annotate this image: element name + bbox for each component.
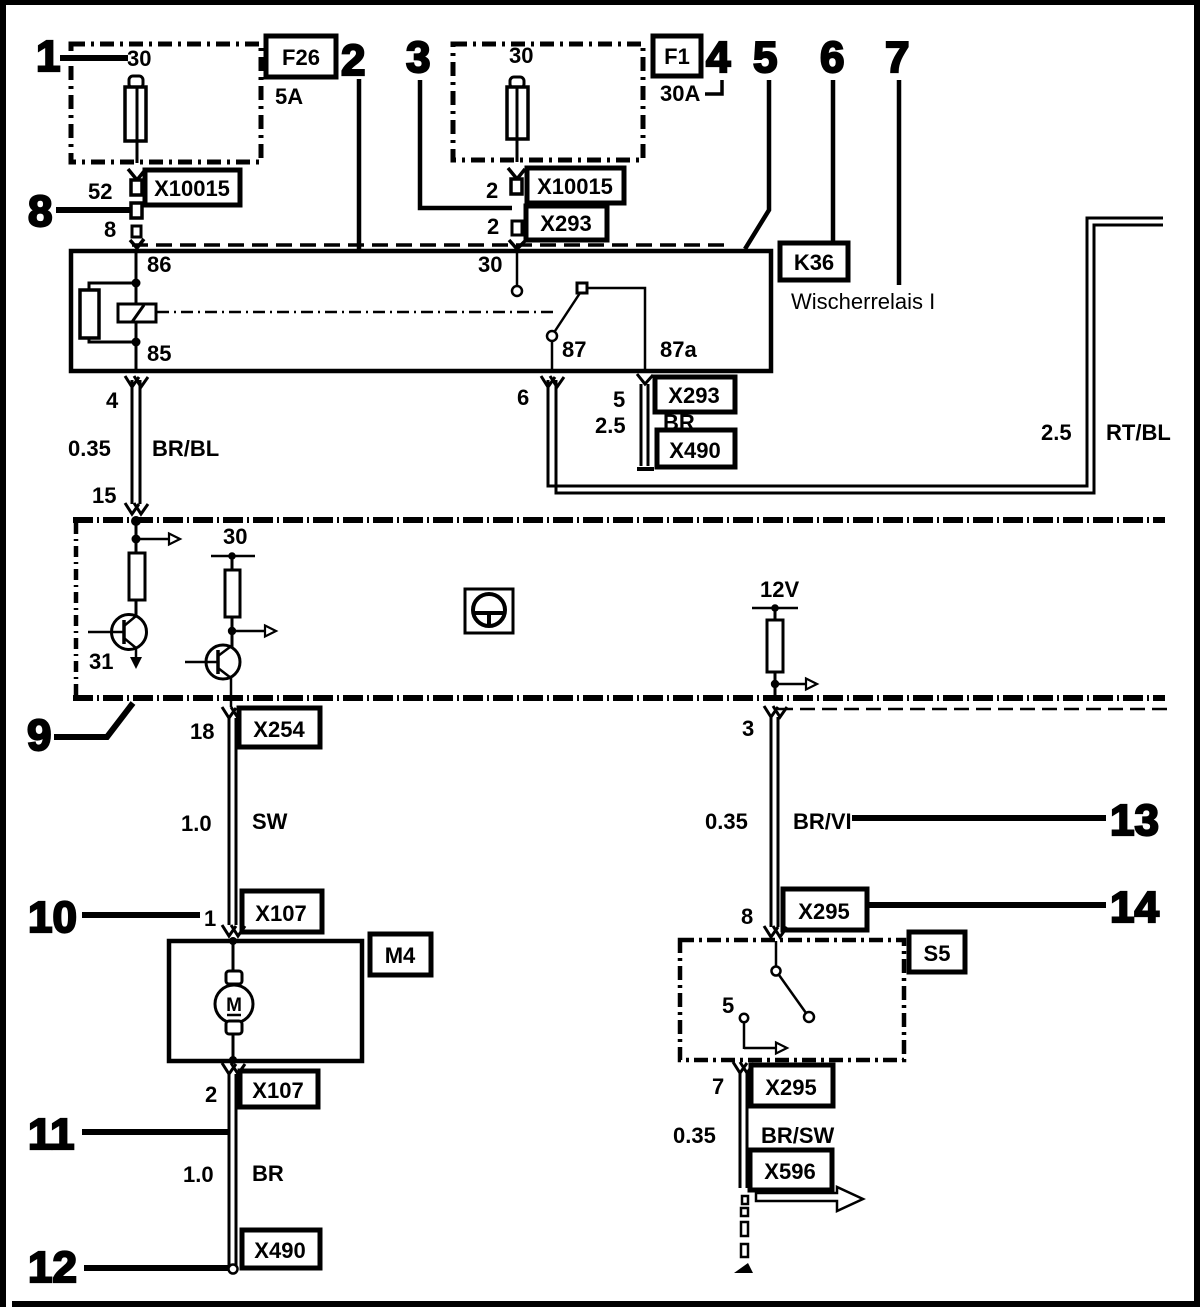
callout 10 leader line (82, 912, 200, 918)
svg-text:0.35: 0.35 (705, 809, 748, 834)
branch arrow right (open, middle) (232, 630, 265, 633)
earth eyelet circle at wire end (229, 1265, 238, 1274)
wire BR double line (229, 1074, 236, 1266)
svg-text:1: 1 (204, 906, 216, 931)
switch S5 dashed box (680, 940, 904, 1060)
callout 1 leader line (60, 55, 128, 61)
svg-text:X107: X107 (252, 1078, 303, 1103)
wire pivot to 87a terminal (587, 288, 645, 371)
svg-text:BR/BL: BR/BL (152, 436, 219, 461)
terminal 30 contact circle (512, 286, 522, 296)
callout 9 leader line (54, 703, 133, 737)
12V T-bar (752, 607, 798, 610)
svg-text:86: 86 (147, 252, 171, 277)
svg-text:5A: 5A (275, 84, 303, 109)
svg-text:X490: X490 (254, 1238, 305, 1263)
dashed boundary line above relay (132, 243, 728, 247)
motor earth wire (232, 1034, 235, 1062)
pin 3 arrows below module (764, 706, 787, 717)
svg-text:87a: 87a (660, 337, 697, 362)
label box X490 (lower) (242, 1230, 320, 1268)
callout 2 leader line (357, 79, 362, 250)
pin 15 entry arrows (125, 503, 148, 514)
svg-text:30: 30 (478, 252, 502, 277)
svg-text:3: 3 (742, 716, 754, 741)
callout 14 leader line (869, 902, 1106, 908)
relay K36 outline box (71, 251, 771, 371)
wire SW double line (229, 718, 236, 925)
internal fuse/resistor (left) (129, 553, 145, 600)
svg-text:BR/SW: BR/SW (761, 1123, 835, 1148)
svg-text:4: 4 (106, 388, 119, 413)
inner dashed boundary (right lower) (778, 708, 1168, 711)
label box S5 (909, 932, 965, 972)
svg-text:2: 2 (487, 214, 499, 239)
fuse F1 symbol (507, 77, 528, 162)
svg-text:9: 9 (27, 711, 51, 760)
dashed earth wire segment 2 (741, 1208, 748, 1216)
branch arrow right (open, 12V) (775, 683, 806, 686)
page border frame right (1194, 0, 1200, 1307)
callout 12 leader line (84, 1265, 230, 1271)
internal fuse/resistor (12V) (767, 620, 783, 672)
svg-text:1.0: 1.0 (183, 1162, 214, 1187)
resistor bottom connection wire (89, 338, 136, 342)
svg-text:8: 8 (741, 904, 753, 929)
svg-text:X107: X107 (255, 901, 306, 926)
wire 12V to fuse (774, 608, 777, 620)
svg-text:2.5: 2.5 (1041, 420, 1072, 445)
wire 87a double line down (641, 384, 648, 466)
svg-text:X295: X295 (765, 1075, 816, 1100)
control module dashed boundary left (74, 523, 79, 700)
dashed earth wire segment 1 (742, 1196, 748, 1204)
wire fuse to junction (231, 617, 234, 647)
relay coil feed wire (135, 251, 138, 305)
svg-text:6: 6 (517, 385, 529, 410)
node where pin 15 wire enters module (131, 516, 141, 526)
fuse carrier dashed box (left) (71, 44, 261, 162)
relay pin 4 arrows (125, 376, 148, 387)
svg-text:X295: X295 (798, 899, 849, 924)
emitter arrowhead (ground side) (130, 657, 142, 669)
pin 5 lead down (743, 1022, 746, 1049)
motor feed node (229, 937, 237, 945)
svg-text:RT/BL: RT/BL (1106, 420, 1171, 445)
motor brush cap (bottom) (226, 1021, 242, 1034)
connector X10015 pin arrow (right) (508, 168, 525, 179)
wire fuse to module edge (774, 672, 777, 700)
relay contact pivot square (577, 283, 587, 293)
label box F26 (266, 36, 336, 77)
motor brush cap (top) (226, 971, 242, 984)
fuse F26 symbol (125, 76, 146, 163)
svg-text:X10015: X10015 (154, 176, 230, 201)
svg-text:11: 11 (28, 1110, 75, 1159)
relay coil diagonal (132, 305, 144, 322)
label box F1 (653, 36, 701, 76)
label box M4 (370, 934, 431, 975)
motor feed wire (232, 941, 235, 973)
contact 87 lead (551, 341, 554, 371)
junction node with branch arrow (12V) (771, 680, 779, 688)
svg-text:5: 5 (722, 993, 734, 1018)
dashed earth wire segment 4 (741, 1244, 748, 1257)
page border frame bottom (12, 1301, 1200, 1307)
pin 2 arrows into X107 lower (222, 1063, 245, 1074)
svg-text:30: 30 (223, 524, 247, 549)
callout 7 leader line (897, 80, 902, 285)
wire T-bar to fuse (231, 556, 234, 570)
continuation arrow (outline, right) (756, 1187, 863, 1211)
svg-text:87: 87 (562, 337, 586, 362)
svg-text:S5: S5 (924, 941, 951, 966)
svg-text:30: 30 (127, 46, 151, 71)
pin 1 arrows into motor (222, 925, 245, 936)
label box X490 (upper) (657, 430, 735, 467)
svg-text:85: 85 (147, 341, 171, 366)
resistor top connection wire (89, 283, 136, 290)
connector X10015 pin arrow (left) (128, 169, 145, 180)
svg-text:7: 7 (885, 33, 909, 82)
connector pin square (right upper) (511, 179, 522, 194)
control module dashed boundary top (73, 517, 1165, 523)
svg-text:4: 4 (706, 33, 731, 82)
wire 86-circuit double line (pin 4 down) (132, 380, 140, 504)
junction node with branch arrow (132, 535, 141, 544)
svg-text:6: 6 (820, 33, 844, 82)
svg-text:K36: K36 (794, 250, 834, 275)
12V T-bar node (771, 604, 779, 612)
wire into module (135, 521, 138, 553)
svg-text:10: 10 (28, 893, 77, 942)
connector pin square (left, lower) (132, 226, 141, 237)
dashed earth wire segment 3 (741, 1222, 748, 1236)
transistor (middle, wiper motor driver) (185, 645, 240, 707)
switch contact circle (blade end) (804, 1012, 814, 1022)
svg-text:52: 52 (88, 179, 112, 204)
svg-text:X10015: X10015 (537, 174, 613, 199)
wiper motor M4 box (169, 941, 362, 1061)
switch blade (779, 975, 806, 1013)
label box X254 (239, 708, 320, 747)
transistor (left, terminal 31 driver) (88, 615, 147, 660)
steering column switch icon (465, 589, 513, 633)
svg-text:2.5: 2.5 (595, 413, 626, 438)
control module dashed boundary bottom (73, 695, 1165, 701)
earth end tick (637, 467, 654, 471)
svg-text:5: 5 (613, 387, 625, 412)
svg-text:X596: X596 (764, 1159, 815, 1184)
svg-text:5: 5 (753, 33, 777, 82)
30 supply T-bar (211, 555, 255, 558)
callout 13 leader line (852, 815, 1106, 821)
svg-text:F1: F1 (664, 44, 690, 69)
svg-text:18: 18 (190, 719, 214, 744)
label box X295 (lower) (751, 1065, 833, 1106)
label box X10015 (right) (527, 168, 624, 203)
svg-text:2: 2 (205, 1082, 217, 1107)
relay switch blade (555, 293, 580, 331)
svg-text:BR: BR (663, 410, 695, 435)
callout 8 leader line (56, 207, 130, 213)
svg-text:30A: 30A (660, 81, 700, 106)
svg-text:8: 8 (104, 217, 116, 242)
svg-text:7: 7 (712, 1074, 724, 1099)
svg-text:0.35: 0.35 (673, 1123, 716, 1148)
switch common lead (775, 941, 778, 966)
svg-text:1.0: 1.0 (181, 811, 212, 836)
connector pin square (right lower) (512, 221, 522, 235)
fuse carrier dashed box (right) (453, 44, 643, 160)
wire fuse to transistor (135, 600, 138, 616)
earth endpoint triangle (734, 1263, 753, 1273)
svg-text:31: 31 (89, 649, 113, 674)
motor earth node (229, 1056, 237, 1064)
svg-text:F26: F26 (282, 45, 320, 70)
page border frame top (0, 0, 1200, 5)
87a pin arrow into X293 (637, 374, 653, 384)
relay coil box (118, 304, 156, 322)
svg-text:M: M (226, 995, 242, 1016)
internal fuse/resistor (middle) (225, 570, 240, 617)
callout 3 leader line (420, 80, 512, 208)
branch arrow right (open) (136, 538, 169, 541)
svg-text:0.35: 0.35 (68, 436, 111, 461)
pin 7 arrows below switch (733, 1062, 754, 1073)
label box X107 (upper) (242, 891, 322, 932)
relay coil to 85 wire (135, 322, 138, 371)
svg-text:X293: X293 (540, 211, 591, 236)
svg-text:Wischerrelais I: Wischerrelais I (791, 289, 935, 314)
relay pin 6 arrows (541, 376, 564, 387)
label box X10015 (left) (145, 170, 240, 205)
junction node with branch arrow (middle) (228, 627, 236, 635)
callout 6 leader line (831, 80, 836, 244)
svg-text:BR: BR (252, 1161, 284, 1186)
label box X293 (top) (526, 206, 607, 240)
svg-text:X490: X490 (669, 438, 720, 463)
pin 18 arrows into X254 (222, 707, 245, 718)
svg-text:3: 3 (406, 33, 430, 82)
label box X107 (lower) (240, 1071, 318, 1107)
svg-text:8: 8 (28, 187, 52, 236)
label box X295 (upper) (783, 889, 867, 930)
page border frame left (0, 0, 6, 1307)
relay resistor (parallel) (80, 290, 99, 338)
svg-text:14: 14 (1110, 883, 1159, 932)
label box K36 (780, 243, 848, 280)
terminal 30 lead (516, 251, 519, 286)
svg-text:X293: X293 (668, 383, 719, 408)
svg-text:12V: 12V (760, 577, 799, 602)
svg-text:12: 12 (28, 1243, 77, 1292)
svg-text:30: 30 (509, 43, 533, 68)
relay contact 87 circle (547, 331, 557, 341)
svg-text:M4: M4 (385, 943, 416, 968)
callout 5 leader line (745, 80, 769, 249)
30A bracket mark (705, 80, 722, 94)
svg-text:13: 13 (1110, 796, 1159, 845)
motor armature circle with M (215, 985, 253, 1023)
junction node at 85 branch (132, 338, 141, 347)
connector pin square (left, X10015) (131, 180, 142, 195)
connector pin square (left, middle) (131, 203, 142, 218)
pin 8 arrows into switch S5 (764, 926, 787, 937)
svg-text:15: 15 (92, 483, 116, 508)
svg-text:SW: SW (252, 809, 288, 834)
wire BR/VI double line (771, 717, 778, 927)
wire 87-circuit double line elbow to right (548, 218, 1163, 493)
branch arrow right (open, switch) (744, 1047, 776, 1050)
wire BR/SW double line (740, 1073, 747, 1188)
switch contact circle (top) (772, 967, 781, 976)
label box X596 (750, 1150, 832, 1190)
30 T-bar node (228, 552, 236, 560)
switch contact circle (pin 5) (740, 1014, 748, 1022)
relay armature linkage (dash-dot) (157, 311, 557, 314)
callout 11 leader line (82, 1129, 230, 1135)
svg-text:2: 2 (341, 36, 365, 85)
svg-text:BR/VI: BR/VI (793, 809, 852, 834)
wire from X293 pin to relay terminal 30 (509, 240, 526, 249)
svg-text:X254: X254 (253, 717, 305, 742)
svg-text:1: 1 (36, 32, 60, 81)
label box X293 (lower) (655, 377, 735, 412)
wire from pin into relay terminal 86 (130, 239, 144, 248)
svg-text:2: 2 (486, 178, 498, 203)
junction node at 86 branch (132, 279, 141, 288)
